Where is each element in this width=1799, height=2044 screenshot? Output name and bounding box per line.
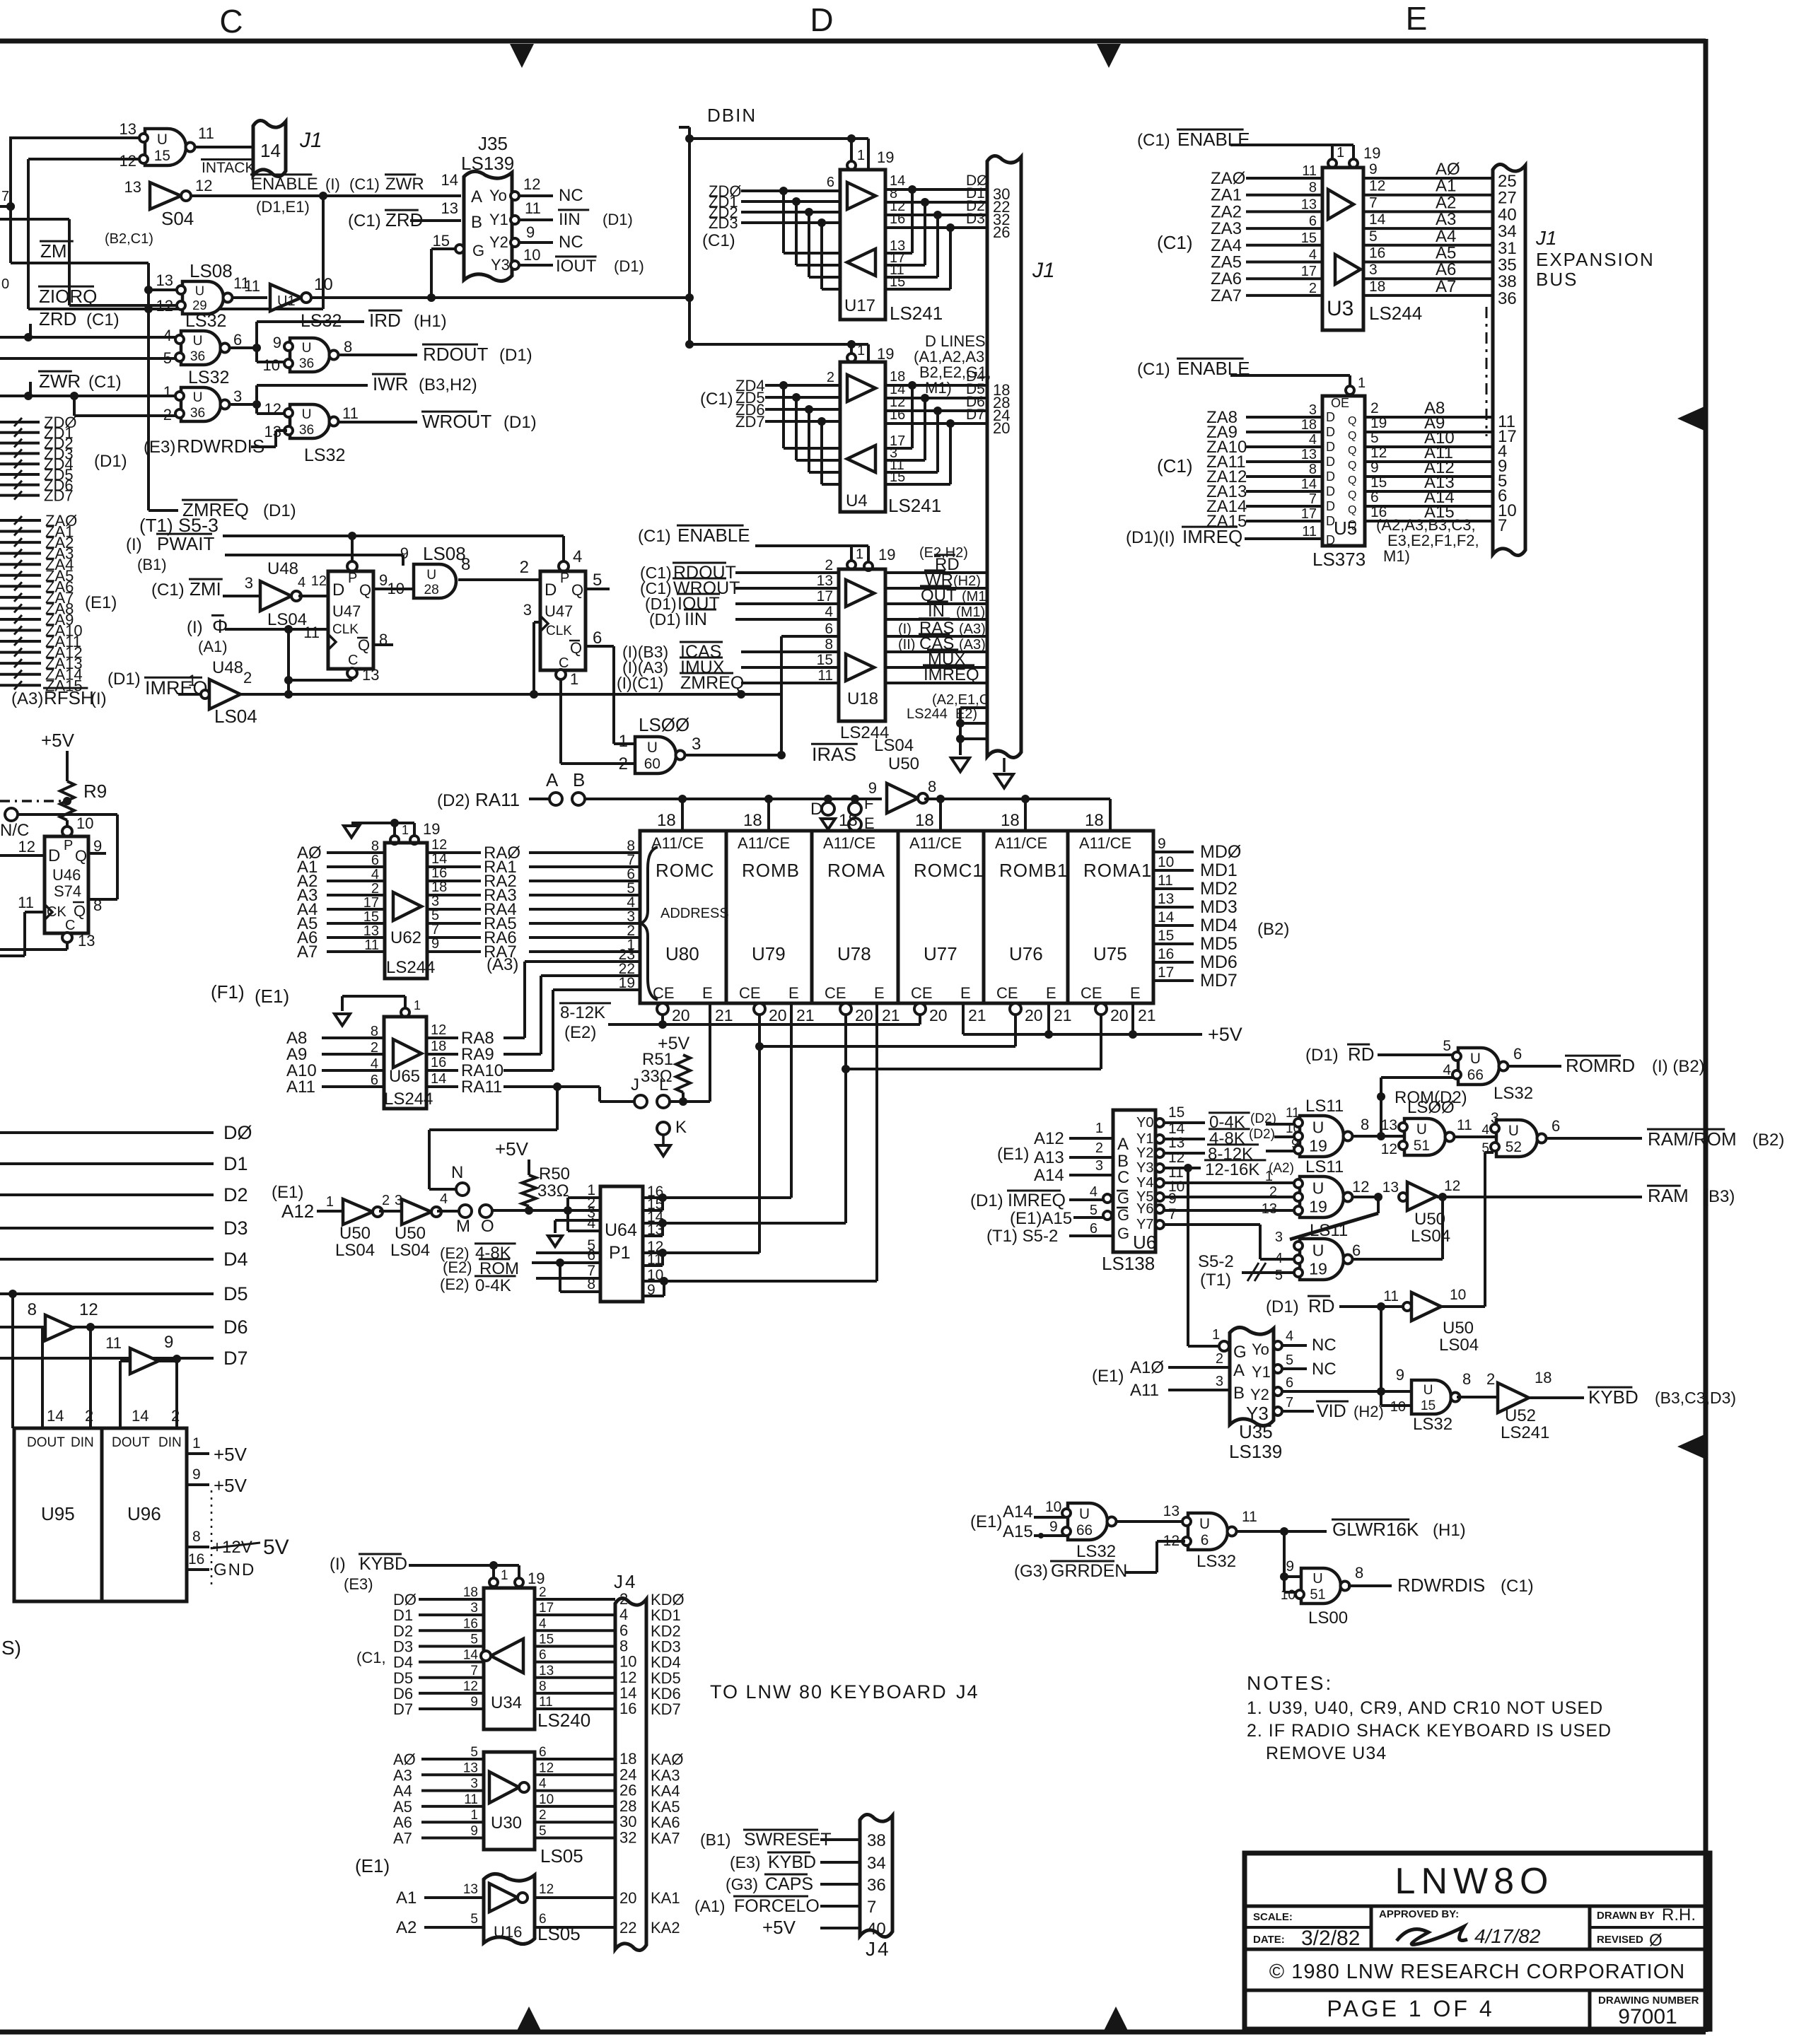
wire ZA1 <box>0 527 41 536</box>
svg-text:29: 29 <box>192 298 206 313</box>
U35 Y2 pin6 <box>1286 1375 1293 1391</box>
D1 label <box>966 185 985 202</box>
svg-text:16: 16 <box>1369 245 1385 262</box>
wire U47b Qbar to U60 <box>586 646 635 744</box>
U66a pin6 <box>1513 1045 1522 1063</box>
ZA14 label u5 <box>1206 497 1247 516</box>
wire RA5 to U80 <box>529 922 640 925</box>
U15 pin 11 label <box>198 124 214 142</box>
U36c pin1 <box>163 383 172 401</box>
ZA8 label u5 <box>1206 408 1238 427</box>
wire S5-3 <box>223 532 564 561</box>
MD5 label <box>1200 934 1238 954</box>
svg-text:1: 1 <box>570 670 578 688</box>
RA10 label <box>461 1061 503 1080</box>
U48a label <box>267 559 298 578</box>
wire ROMA E down <box>875 1003 878 1281</box>
svg-text:33Ω: 33Ω <box>537 1181 569 1201</box>
title block vline approved/drawn <box>1588 1906 1592 1949</box>
svg-text:CE: CE <box>1081 984 1102 1002</box>
pad N <box>429 1163 469 1196</box>
svg-text:6: 6 <box>539 1912 547 1927</box>
svg-text:LS11: LS11 <box>1305 1097 1344 1116</box>
wire A10 u35 <box>1168 1351 1230 1367</box>
wire A3 u62 <box>327 894 385 897</box>
svg-text:17: 17 <box>1301 264 1317 279</box>
GLWR16K label <box>1332 1519 1466 1540</box>
svg-text:Q: Q <box>1348 430 1356 442</box>
svg-text:KA2: KA2 <box>651 1919 680 1937</box>
svg-text:R51: R51 <box>642 1050 673 1069</box>
D3 label <box>966 211 985 227</box>
wire ZA7 <box>0 593 41 602</box>
svg-text:(A1): (A1) <box>198 638 228 655</box>
label (F1) <box>211 981 245 1003</box>
svg-text:2: 2 <box>371 1040 378 1056</box>
ram U96 <box>102 1428 187 1601</box>
svg-text:(D1): (D1) <box>602 211 633 228</box>
svg-text:1: 1 <box>857 148 865 163</box>
wire FORCELO <box>820 1905 860 1908</box>
svg-text:U76: U76 <box>1009 943 1043 964</box>
MD2 label <box>1200 879 1238 899</box>
KD7 label <box>651 1700 681 1718</box>
svg-text:1: 1 <box>163 383 172 401</box>
title REVISED label <box>1597 1931 1663 1950</box>
svg-text:12: 12 <box>195 177 212 194</box>
svg-text:14: 14 <box>463 1648 479 1663</box>
wire RA8 route <box>503 962 640 1038</box>
svg-text:8: 8 <box>93 897 102 914</box>
U62 out pin 7 <box>431 922 439 938</box>
svg-text:13: 13 <box>1163 1503 1180 1519</box>
wire v210 zmi to zmreq <box>147 263 150 510</box>
svg-text:MD6: MD6 <box>1200 952 1238 972</box>
U5 D letter 5 <box>1326 484 1335 498</box>
ZA9 label u5 <box>1206 423 1238 442</box>
svg-text:8: 8 <box>371 839 379 854</box>
pin 11 ls11a <box>1286 1106 1300 1121</box>
wire A10 u65 <box>322 1069 384 1072</box>
U46 pin9 <box>93 837 102 855</box>
wire ZA10 <box>0 626 41 635</box>
svg-text:+5V: +5V <box>41 730 75 751</box>
U30 pin 5 <box>470 1745 478 1760</box>
svg-text:CLK: CLK <box>546 624 572 638</box>
svg-text:51: 51 <box>1414 1138 1430 1154</box>
U36b pin9 <box>273 334 281 351</box>
wire U18 in ZMREQ <box>741 682 839 684</box>
U5 Q letter 6 <box>1348 504 1356 516</box>
svg-text:E: E <box>960 984 971 1002</box>
svg-text:(M1): (M1) <box>956 605 985 620</box>
U6 Y4 bubble <box>1155 1179 1164 1187</box>
svg-text:(I): (I) <box>330 1555 346 1574</box>
svg-text:(H2): (H2) <box>953 573 981 589</box>
J1 pin 1 <box>993 633 1001 651</box>
svg-text:LS240: LS240 <box>537 1710 590 1731</box>
U48b pin1 <box>188 672 197 689</box>
svg-text:Q: Q <box>358 636 370 654</box>
svg-text:3: 3 <box>245 574 253 592</box>
svg-text:IIN: IIN <box>685 609 707 629</box>
U62 out pin 3 <box>431 894 439 909</box>
svg-text:DIN: DIN <box>158 1435 182 1450</box>
svg-text:LS04: LS04 <box>1439 1336 1479 1355</box>
U36c pin2 <box>163 406 172 424</box>
ZA5 label u3 <box>1211 253 1242 272</box>
U64 pin 14 <box>647 1209 664 1225</box>
wire Y0 0-4K <box>1164 1121 1205 1124</box>
svg-text:(E2): (E2) <box>440 1275 470 1293</box>
svg-text:R50: R50 <box>539 1164 570 1184</box>
svg-text:4: 4 <box>1443 1062 1451 1078</box>
LS32 label U36d <box>304 445 345 465</box>
svg-text:11: 11 <box>1302 524 1317 539</box>
svg-text:REVISED: REVISED <box>1597 1934 1643 1946</box>
svg-text:8: 8 <box>1309 462 1317 477</box>
D5 label kbd <box>393 1669 413 1687</box>
svg-text:RA11: RA11 <box>461 1078 502 1097</box>
wire U15 pin12 <box>28 158 145 160</box>
A10 label <box>1424 428 1455 448</box>
wire ZD7 <box>0 491 40 500</box>
LS04 label U48b <box>214 706 257 727</box>
svg-text:(B2,C1): (B2,C1) <box>105 231 153 247</box>
svg-text:15: 15 <box>1168 1104 1184 1121</box>
wire INTACK <box>195 146 253 148</box>
U47b P circle <box>559 547 582 571</box>
svg-text:6: 6 <box>587 1247 595 1263</box>
KD4 label <box>651 1654 681 1671</box>
wire MD4 <box>1153 924 1194 927</box>
svg-text:(D1): (D1) <box>1266 1297 1299 1316</box>
svg-text:15: 15 <box>1370 474 1387 491</box>
wire A14 glwr <box>1034 1516 1066 1519</box>
U35 Y1 NC <box>1282 1353 1337 1379</box>
label (D1) RD b <box>1266 1295 1335 1316</box>
nand U60 LS00 <box>635 737 685 773</box>
inverter U48b <box>201 679 240 709</box>
nand U51b LS00 <box>1296 1568 1350 1604</box>
svg-text:16: 16 <box>188 1551 204 1567</box>
svg-text:U52: U52 <box>1505 1406 1536 1425</box>
jumper pad F <box>849 795 873 815</box>
svg-text:A15: A15 <box>1003 1522 1033 1541</box>
CE pin ROMB1 <box>1010 1003 1043 1024</box>
svg-text:10: 10 <box>1450 1287 1466 1303</box>
wire U19a out <box>1353 1132 1404 1140</box>
J4 pin 32 <box>619 1829 636 1847</box>
U15b pin10 <box>1390 1399 1406 1415</box>
svg-text:(E2): (E2) <box>443 1258 472 1276</box>
LS241 label U4 <box>888 495 941 516</box>
wire U64 pin8 <box>560 1263 600 1292</box>
wire D1 kbd <box>419 1613 484 1616</box>
svg-text:+5V: +5V <box>1208 1024 1242 1045</box>
label RAS out <box>898 619 986 638</box>
svg-text:U79: U79 <box>752 943 786 964</box>
RA2 label <box>484 872 517 891</box>
wire A1 u3 out <box>1363 194 1493 197</box>
U64 pin 1 <box>587 1182 595 1198</box>
svg-text:U3: U3 <box>1327 297 1353 320</box>
svg-text:(C1): (C1) <box>1501 1577 1534 1596</box>
svg-text:U: U <box>1470 1051 1481 1067</box>
U30 out pin 10 <box>539 1792 554 1807</box>
U19c pin3 <box>1275 1230 1283 1245</box>
wire A14 u6 <box>1069 1158 1113 1175</box>
U80 address pin 6 <box>627 866 635 882</box>
title block subdivider drawn/revised <box>1590 1926 1710 1929</box>
wire D4 <box>0 1258 214 1261</box>
U50a pin2 <box>382 1193 390 1208</box>
U29 pin12 <box>156 297 173 315</box>
U62 pin 4 <box>371 867 379 882</box>
wire U4 loop left 0 <box>779 381 840 448</box>
wire A5 u62 <box>327 922 385 925</box>
svg-text:RDWRDIS: RDWRDIS <box>1397 1575 1485 1596</box>
label (E1) za bus <box>85 593 117 612</box>
svg-text:19: 19 <box>1309 1197 1327 1215</box>
svg-text:MD5: MD5 <box>1200 934 1238 954</box>
ZA12 label <box>45 644 83 662</box>
J4 pin 38 <box>867 1831 886 1850</box>
RA0 label <box>484 843 520 863</box>
U30 pin 3 <box>470 1777 478 1792</box>
top alignment triangle 2 <box>1097 44 1121 68</box>
wire U4 pin19 stub <box>867 344 870 361</box>
svg-text:LS32: LS32 <box>1076 1542 1116 1561</box>
wire U47b C to U60 <box>561 679 635 764</box>
svg-text:15: 15 <box>890 469 905 485</box>
svg-text:8: 8 <box>344 338 352 356</box>
U62 out pin 16 <box>431 865 447 881</box>
svg-text:MD1: MD1 <box>1200 860 1238 880</box>
svg-text:S74: S74 <box>54 882 81 900</box>
svg-text:KYBD: KYBD <box>768 1852 816 1872</box>
svg-text:A: A <box>546 769 559 790</box>
svg-text:18: 18 <box>1001 811 1020 830</box>
U36d pin12 <box>264 400 281 418</box>
note 1 <box>1247 1698 1603 1718</box>
J1 stub label <box>299 129 322 152</box>
U4 low pin 11 <box>890 457 904 473</box>
svg-text:2: 2 <box>619 754 628 773</box>
wire U18 out CAS <box>885 650 987 653</box>
svg-text:LS241: LS241 <box>890 303 943 324</box>
wire ZA11 u5 in <box>1246 460 1322 463</box>
wire IWR <box>257 384 368 387</box>
svg-text:Q: Q <box>74 902 86 920</box>
svg-text:(E1): (E1) <box>1092 1367 1124 1386</box>
E pin 21 ROMB <box>796 1006 815 1024</box>
wire ROMB CE down <box>755 1015 764 1253</box>
svg-text:4/17/82: 4/17/82 <box>1474 1925 1541 1947</box>
U62 pin 13 <box>363 923 379 939</box>
wire RA1 to U80 <box>529 865 640 868</box>
A13 label <box>1424 473 1455 492</box>
svg-text:NC: NC <box>1312 1360 1337 1379</box>
TO LNW 80 KEYBOARD label <box>710 1681 979 1703</box>
svg-text:2: 2 <box>1370 400 1379 416</box>
U65 pin 8 <box>371 1024 378 1039</box>
wire U47b Q stub <box>586 588 610 590</box>
wire Y3 to U35 <box>1188 1168 1219 1346</box>
U51b pin9 <box>1286 1558 1294 1575</box>
wire A2 u16 <box>424 1912 484 1927</box>
svg-text:(H1): (H1) <box>414 312 447 331</box>
J4 pin 4 <box>619 1606 628 1623</box>
U47b pin5 <box>593 571 602 590</box>
A4 label u62 <box>297 900 318 919</box>
wire ZA14 <box>0 670 41 679</box>
wire Y5 to U19b <box>1164 1196 1296 1198</box>
wire RD to KYBD gate <box>1377 1307 1411 1406</box>
wire A12 u5 out <box>1365 475 1493 478</box>
U5 Q letter 7 <box>1348 519 1356 531</box>
wire U64 pin4 <box>568 1230 600 1232</box>
svg-text:A5: A5 <box>393 1798 412 1816</box>
svg-text:8: 8 <box>461 555 470 574</box>
A1 label <box>1436 177 1456 196</box>
svg-text:21: 21 <box>715 1006 733 1024</box>
J1 pin 18 <box>993 381 1010 399</box>
A15 label <box>1424 503 1455 522</box>
A2 label <box>1436 193 1456 212</box>
svg-text:U: U <box>157 132 168 148</box>
inverter U1 <box>270 284 311 311</box>
wire ZA6 <box>0 582 41 590</box>
wire MD6 <box>1153 961 1194 964</box>
wire ZA0 u3 in <box>1246 177 1322 180</box>
svg-text:(D1): (D1) <box>499 346 532 365</box>
U19b pin12 <box>1352 1178 1369 1196</box>
D0 label <box>223 1122 252 1143</box>
U47a pin8 <box>379 631 388 648</box>
wire U18 out RD <box>885 571 987 574</box>
svg-text:20: 20 <box>619 1889 636 1907</box>
svg-text:1: 1 <box>857 343 865 358</box>
bottom alignment triangle 2 <box>1104 2007 1128 2031</box>
U6 Y5 bubble <box>1155 1193 1164 1201</box>
U65 pin 2 <box>371 1040 378 1056</box>
svg-text:13: 13 <box>463 1882 478 1897</box>
wire ZA13 <box>0 659 41 667</box>
U15 pin 12 label <box>120 152 136 170</box>
svg-text:2: 2 <box>539 1585 547 1600</box>
svg-text:4: 4 <box>1090 1184 1098 1200</box>
svg-text:U6: U6 <box>1133 1232 1156 1253</box>
svg-text:40: 40 <box>867 1920 886 1939</box>
U50a label <box>335 1224 375 1260</box>
svg-text:13: 13 <box>363 923 379 939</box>
wire U18 out RAS <box>885 635 987 638</box>
svg-text:18: 18 <box>915 811 934 830</box>
U64 pin 16 <box>647 1184 663 1200</box>
MD pin 9 <box>1158 836 1166 852</box>
label IN out <box>927 602 985 621</box>
U64 pin 5 <box>587 1237 595 1254</box>
LS11 label b <box>1305 1157 1344 1176</box>
svg-text:5: 5 <box>1443 1038 1451 1054</box>
svg-text:2: 2 <box>827 370 834 385</box>
svg-text:C: C <box>348 653 358 668</box>
wire KA u30 5 <box>535 1837 615 1840</box>
J1 pin 22 <box>993 198 1010 216</box>
wire U17 pin1 stub <box>850 139 853 161</box>
svg-text:LS32: LS32 <box>301 311 342 331</box>
svg-text:U50: U50 <box>339 1224 371 1243</box>
svg-text:O: O <box>481 1217 494 1236</box>
wire ZD1 u17 <box>741 200 840 203</box>
svg-text:52: 52 <box>1506 1139 1522 1155</box>
wire RA0 to U80 <box>529 851 640 854</box>
wire U15 pin13 <box>11 136 145 139</box>
ZA7 label <box>45 589 74 607</box>
LS32 label U15b <box>1413 1415 1452 1434</box>
U4 pin19 label <box>877 345 894 363</box>
svg-text:16: 16 <box>890 211 905 227</box>
wire A13 u6 <box>1069 1140 1113 1157</box>
R9 label <box>83 781 107 802</box>
svg-text:11: 11 <box>303 624 320 641</box>
svg-text:6: 6 <box>233 331 242 349</box>
wire v457 enable to iorq <box>322 196 325 309</box>
wire A12 in <box>317 1210 342 1213</box>
svg-text:5: 5 <box>593 571 602 590</box>
svg-text:(I): (I) <box>187 618 203 637</box>
svg-text:3: 3 <box>1275 1230 1283 1245</box>
label ROM(D2) <box>1395 1088 1467 1107</box>
svg-text:(H2): (H2) <box>1353 1403 1384 1420</box>
A7 label u62 <box>297 942 318 962</box>
D3 label kbd <box>393 1637 413 1655</box>
U18 pin1 circle <box>847 547 863 569</box>
svg-text:D3: D3 <box>223 1217 248 1239</box>
wire ZA4 u3 in <box>1246 244 1322 247</box>
U47a pin9 <box>379 571 388 589</box>
KA6 label <box>651 1814 680 1831</box>
svg-text:Q: Q <box>570 639 582 657</box>
wire AØ u30 <box>421 1758 484 1760</box>
ground arrow pad D <box>821 819 835 829</box>
wire A4 u30 <box>421 1789 484 1792</box>
J1 pin 2 <box>993 601 1001 619</box>
svg-text:KA5: KA5 <box>651 1798 680 1816</box>
wire ZA9 <box>0 615 41 624</box>
title DATE label <box>1253 1934 1285 1946</box>
wire A11 u65 <box>322 1085 384 1088</box>
LS08 label U28 <box>423 543 466 564</box>
U48b label <box>212 658 243 677</box>
label 0-4K <box>1209 1111 1276 1132</box>
U15 pin 13 label <box>120 120 136 138</box>
U30 pin 11 <box>464 1792 478 1807</box>
svg-text:17: 17 <box>1158 964 1174 981</box>
RDWRDIS label <box>144 436 264 457</box>
svg-text:+5V: +5V <box>495 1138 529 1160</box>
jumper pad L <box>657 1075 670 1108</box>
svg-text:U: U <box>193 334 203 349</box>
label (G3) GRRDEN <box>1014 1561 1127 1581</box>
svg-text:2. IF RADIO SHACK KEYBOARD IS: 2. IF RADIO SHACK KEYBOARD IS USED <box>1247 1721 1612 1741</box>
label (D1) zd bus <box>94 452 127 471</box>
wire KD7 <box>535 1707 615 1710</box>
J4 pin 24 <box>619 1765 636 1783</box>
U28 pin10 <box>388 580 404 597</box>
svg-text:6: 6 <box>1352 1242 1361 1259</box>
